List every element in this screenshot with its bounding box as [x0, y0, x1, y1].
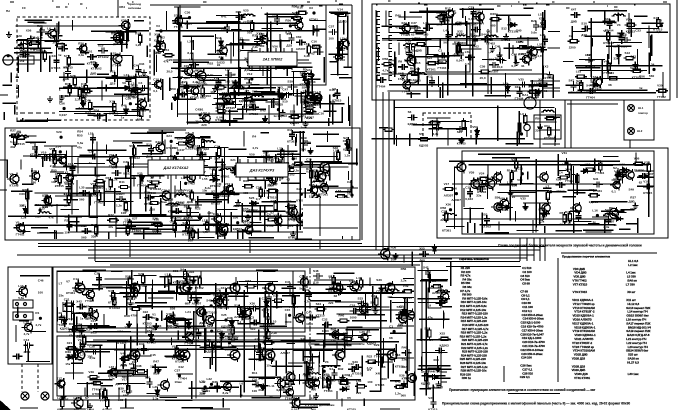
svg-text:510: 510 [250, 327, 255, 331]
svg-text:4700: 4700 [131, 313, 138, 317]
wire [223, 147, 225, 223]
wire [88, 114, 107, 116]
resistor R34 [303, 110, 315, 113]
wire [662, 72, 664, 97]
svg-text:Д18: Д18 [225, 194, 231, 198]
wire [169, 78, 171, 91]
resistor R96 [440, 12, 443, 24]
svg-text:1000: 1000 [350, 315, 357, 319]
resistor R2 [67, 55, 70, 67]
svg-text:КД503: КД503 [290, 121, 300, 125]
wire [106, 77, 135, 79]
capacitor C90 [411, 25, 421, 31]
svg-text:АЛ307: АЛ307 [451, 198, 461, 202]
svg-text:S16: S16 [244, 223, 250, 227]
wire [508, 43, 510, 59]
svg-text:антенны: антенны [128, 6, 142, 10]
resistor R5 [139, 33, 142, 45]
wire [585, 35, 622, 37]
ground [232, 165, 238, 171]
ground [400, 72, 406, 78]
wire [436, 120, 438, 130]
capacitor C102 [433, 125, 443, 131]
svg-text:V42: V42 [604, 59, 610, 63]
wire [76, 217, 78, 231]
wire [101, 80, 103, 100]
svg-text:КТ361: КТ361 [221, 175, 230, 179]
svg-text:100: 100 [259, 44, 264, 48]
wire [17, 57, 19, 73]
capacitor C39 [282, 92, 292, 98]
wire [326, 131, 328, 142]
wire [522, 46, 545, 48]
op-amp ДА2 К174ХА2 [148, 160, 204, 175]
resistor R40 [218, 146, 221, 158]
svg-text:S31: S31 [173, 269, 179, 273]
wire [230, 42, 232, 63]
svg-text:S27: S27 [221, 163, 227, 167]
wire [265, 152, 267, 165]
wire [475, 164, 649, 166]
wire [250, 221, 261, 223]
svg-text:Д9Б: Д9Б [120, 363, 127, 367]
capacitor C32 [225, 72, 235, 78]
svg-text:АЛ307: АЛ307 [192, 302, 202, 306]
wire [535, 216, 537, 232]
svg-text:220: 220 [535, 128, 540, 132]
capacitor C19 [224, 23, 230, 33]
wire [432, 120, 434, 137]
wire [333, 152, 335, 164]
svg-text:X7: X7 [259, 346, 263, 350]
svg-text:S27: S27 [407, 53, 413, 57]
capacitor C66 [263, 155, 273, 161]
wire [24, 155, 34, 157]
wire [130, 157, 132, 217]
wire [412, 124, 439, 126]
svg-text:220: 220 [201, 123, 206, 127]
svg-text:68: 68 [188, 237, 192, 241]
wire [116, 227, 150, 229]
wire [262, 150, 297, 152]
svg-text:R49: R49 [236, 10, 242, 14]
svg-text:560: 560 [649, 74, 654, 78]
svg-text:КТ203: КТ203 [556, 189, 565, 193]
svg-text:КТ815: КТ815 [403, 296, 412, 300]
ground [540, 20, 546, 26]
svg-text:V48: V48 [166, 312, 172, 316]
wire [539, 100, 541, 148]
capacitor C58 [112, 170, 122, 176]
svg-text:R22: R22 [219, 44, 225, 48]
resistor R53 [300, 213, 312, 216]
svg-text:Д18: Д18 [581, 33, 587, 37]
wire [481, 213, 483, 233]
svg-text:L44: L44 [259, 32, 265, 36]
wire [303, 204, 358, 206]
diode VD25 [503, 205, 513, 209]
wire [14, 105, 16, 114]
svg-text:ГТ404: ГТ404 [137, 183, 146, 187]
wire [261, 92, 282, 94]
wire [217, 86, 219, 112]
wire [617, 212, 627, 214]
svg-text:X39: X39 [399, 373, 405, 377]
wire [604, 219, 606, 233]
transistor VT29 [271, 215, 282, 227]
wire [199, 236, 215, 238]
svg-text:КТ361: КТ361 [442, 229, 451, 233]
svg-text:C46: C46 [38, 279, 44, 283]
svg-text:C51: C51 [125, 293, 131, 297]
svg-text:S31: S31 [593, 177, 599, 181]
transistor VT23 [153, 141, 165, 154]
svg-text:3,3к: 3,3к [153, 397, 159, 401]
svg-text:ГТ404: ГТ404 [185, 342, 194, 346]
resistor R19 [307, 43, 310, 55]
wire [127, 225, 136, 227]
wire [218, 98, 231, 100]
wire [461, 48, 482, 50]
resistor R99 [409, 72, 421, 75]
wire [188, 231, 190, 239]
svg-text:100: 100 [225, 79, 230, 83]
svg-text:R56: R56 [401, 267, 407, 271]
wire [601, 59, 603, 83]
wire [648, 25, 650, 48]
svg-text:680: 680 [320, 172, 325, 176]
wire [629, 140, 631, 148]
svg-text:S38: S38 [100, 387, 106, 391]
wire [204, 79, 225, 81]
wire [275, 66, 312, 68]
wire [527, 37, 529, 58]
svg-text:КТ203: КТ203 [288, 236, 297, 240]
wire [171, 103, 173, 110]
svg-text:C18: C18 [497, 53, 503, 57]
wire [174, 217, 176, 238]
wire [421, 46, 440, 48]
svg-text:C47: C47 [282, 88, 288, 92]
wire [260, 132, 269, 134]
svg-text:X32: X32 [95, 174, 101, 178]
transistor VT20 [337, 37, 349, 50]
wire [426, 76, 428, 98]
diode VD15 [23, 206, 27, 216]
svg-text:C26: C26 [172, 146, 178, 150]
svg-text:S56: S56 [495, 196, 501, 200]
svg-text:1к: 1к [540, 45, 544, 49]
node [60, 136, 62, 138]
inductor L1 [18, 43, 32, 45]
wire [0, 189, 7, 191]
node [129, 103, 131, 105]
wire [208, 53, 228, 55]
svg-text:5,6к: 5,6к [18, 296, 24, 300]
svg-text:АЛ307: АЛ307 [489, 69, 499, 73]
svg-text:1,2к: 1,2к [116, 204, 122, 208]
svg-text:V13: V13 [195, 274, 201, 278]
svg-text:C42: C42 [306, 311, 312, 315]
svg-text:47к: 47к [69, 334, 74, 338]
wire [496, 14, 531, 16]
wire [241, 49, 258, 51]
wire [313, 103, 345, 105]
wire [310, 20, 326, 22]
wire [114, 115, 142, 117]
svg-text:100: 100 [367, 380, 372, 384]
transistor VT7 [135, 98, 147, 111]
ground [212, 85, 218, 91]
wire [173, 59, 310, 61]
svg-text:V19: V19 [643, 179, 649, 183]
svg-text:4700: 4700 [227, 328, 234, 332]
svg-text:КТ315: КТ315 [68, 174, 77, 178]
svg-text:КД503: КД503 [278, 114, 288, 118]
wire [329, 95, 331, 118]
wire [0, 94, 8, 96]
capacitor C49 [144, 195, 154, 201]
wire [544, 10, 546, 30]
wire [61, 208, 79, 210]
wire [590, 18, 592, 77]
svg-text:V20: V20 [145, 376, 151, 380]
svg-text:V7: V7 [71, 347, 75, 351]
svg-text:С5 68: С5 68 [522, 282, 530, 286]
svg-text:V3: V3 [325, 360, 329, 364]
svg-text:S43: S43 [68, 317, 74, 321]
wire [10, 72, 12, 82]
svg-text:КТ3102: КТ3102 [228, 335, 239, 339]
wire [114, 177, 136, 179]
wire [514, 54, 516, 64]
svg-text:X24: X24 [166, 134, 172, 138]
wire [234, 205, 273, 207]
wire [217, 224, 219, 239]
svg-text:C20: C20 [194, 327, 200, 331]
wire [286, 30, 318, 32]
resistor R55 [191, 228, 194, 240]
wire [96, 141, 98, 237]
wire [182, 230, 196, 232]
wire [475, 129, 477, 145]
svg-text:X35: X35 [644, 160, 650, 164]
svg-text:8,2к: 8,2к [153, 371, 159, 375]
wire [147, 131, 174, 133]
svg-text:Д9Б: Д9Б [154, 50, 161, 54]
svg-text:Д18: Д18 [146, 154, 152, 158]
svg-text:0,047: 0,047 [59, 113, 67, 117]
capacitor C111 [575, 212, 581, 222]
svg-text:R36: R36 [212, 380, 218, 384]
svg-text:S5: S5 [419, 132, 423, 136]
capacitor C57 [276, 158, 282, 168]
wire [319, 94, 321, 108]
node [450, 209, 452, 211]
svg-text:L35: L35 [79, 186, 85, 190]
wire [187, 122, 198, 124]
resistor R33 [289, 115, 301, 118]
wire [612, 41, 641, 43]
svg-text:R13: R13 [170, 154, 176, 158]
wire [193, 166, 218, 168]
svg-text:560: 560 [401, 394, 406, 398]
resistor R79 [124, 200, 127, 212]
svg-text:C21: C21 [64, 297, 70, 301]
wire [105, 145, 107, 154]
wire [266, 40, 290, 42]
wire [132, 142, 143, 144]
wire [281, 157, 283, 179]
node [189, 17, 191, 19]
svg-text:R54: R54 [94, 109, 100, 113]
wire [113, 140, 152, 142]
wire [451, 14, 453, 36]
wire [26, 120, 61, 122]
svg-text:91: 91 [180, 81, 184, 85]
wire [394, 107, 555, 109]
transistor VT5 [110, 52, 122, 65]
wire [570, 165, 572, 184]
wire [607, 54, 609, 73]
transistor VT24 [56, 155, 66, 166]
wire [523, 7, 533, 9]
wire [341, 229, 343, 239]
wire [509, 192, 511, 202]
svg-text:X23: X23 [60, 315, 66, 319]
svg-text:680: 680 [538, 24, 543, 28]
resistor R134 [546, 190, 549, 202]
svg-text:КД503: КД503 [233, 227, 243, 231]
svg-text:C44: C44 [170, 220, 176, 224]
wire [197, 228, 199, 239]
svg-text:C55: C55 [243, 207, 249, 211]
svg-text:0,033: 0,033 [94, 283, 102, 287]
wire [117, 63, 119, 89]
svg-text:X15: X15 [98, 44, 104, 48]
wire [319, 198, 321, 236]
svg-text:Д9Б: Д9Б [416, 49, 423, 53]
svg-text:15к: 15к [65, 362, 70, 366]
resistor R37 [333, 55, 345, 58]
wire [535, 89, 537, 98]
svg-text:0,1: 0,1 [153, 89, 158, 93]
wire [542, 66, 544, 79]
wire [44, 145, 77, 147]
transistor VT16 [188, 85, 199, 97]
wire [626, 223, 638, 225]
resistor R90 [15, 136, 27, 139]
svg-text:C15: C15 [232, 79, 238, 83]
wire [509, 172, 511, 221]
wire [372, 138, 526, 140]
wire [512, 45, 514, 54]
resistor R133 [633, 162, 645, 165]
svg-text:560: 560 [443, 40, 448, 44]
svg-text:КТ203: КТ203 [632, 75, 641, 79]
wire [88, 192, 90, 218]
wire [203, 223, 229, 225]
svg-text:33к: 33к [331, 339, 336, 343]
wire [227, 186, 229, 203]
wire [14, 47, 51, 49]
resistor R89 [67, 193, 70, 205]
svg-text:S21: S21 [576, 79, 582, 83]
resistor R70 [14, 135, 17, 147]
svg-text:4700: 4700 [267, 224, 274, 228]
svg-text:АЛ307: АЛ307 [432, 291, 442, 295]
motor M1 [407, 71, 419, 83]
capacitor C63 [172, 208, 182, 214]
transistor VT32 [106, 154, 118, 167]
wire [304, 188, 306, 202]
capacitor C24 [184, 82, 190, 92]
wire [90, 216, 98, 218]
svg-text:L15: L15 [123, 382, 129, 386]
svg-text:ГТ404: ГТ404 [586, 95, 595, 99]
svg-text:АЛ307: АЛ307 [273, 305, 283, 309]
capacitor C113 [605, 216, 611, 226]
svg-text:ГТ404: ГТ404 [402, 90, 411, 94]
audio amp outer box [437, 148, 668, 238]
wire [27, 189, 29, 215]
transistor VT30 [309, 194, 321, 207]
wire [153, 49, 155, 75]
wire [283, 172, 306, 174]
svg-text:АЛ307: АЛ307 [65, 182, 75, 186]
svg-text:ДА2 К174ХА2: ДА2 К174ХА2 [163, 166, 190, 170]
svg-text:560: 560 [81, 236, 86, 240]
svg-text:S36: S36 [376, 278, 382, 282]
wire [262, 28, 283, 30]
svg-text:R41: R41 [221, 15, 227, 19]
wire [460, 83, 487, 85]
lamp HL1 [628, 105, 635, 112]
wire [105, 114, 107, 122]
wire [335, 14, 345, 16]
wire [49, 84, 51, 108]
diode VD20 [506, 84, 510, 94]
svg-text:КТ815: КТ815 [152, 228, 161, 232]
resistor R21 [296, 11, 308, 14]
resistor R51 [176, 142, 188, 145]
svg-text:V35: V35 [520, 196, 526, 200]
svg-text:КТ361: КТ361 [593, 189, 602, 193]
diode VD22 [590, 83, 600, 87]
capacitor C85 [537, 47, 547, 53]
svg-text:R52: R52 [111, 31, 117, 35]
wire [448, 218, 619, 220]
wire [608, 40, 610, 59]
ground [308, 148, 314, 154]
svg-text:X9 шт: X9 шт [627, 290, 636, 294]
svg-text:L3: L3 [165, 273, 169, 277]
svg-text:S39: S39 [352, 360, 358, 364]
resistor R44 [118, 185, 130, 188]
svg-text:Д9Б: Д9Б [222, 103, 229, 107]
resistor R17 [73, 75, 76, 87]
svg-text:V25: V25 [221, 313, 227, 317]
wire [329, 167, 331, 181]
resistor R48 [259, 187, 262, 199]
svg-text:ГТ404: ГТ404 [113, 63, 122, 67]
resistor R59 [292, 162, 304, 165]
wire [552, 74, 554, 98]
wire [239, 67, 241, 88]
resistor R88 [109, 177, 112, 189]
svg-text:X22: X22 [143, 310, 149, 314]
svg-text:L51: L51 [336, 189, 342, 193]
